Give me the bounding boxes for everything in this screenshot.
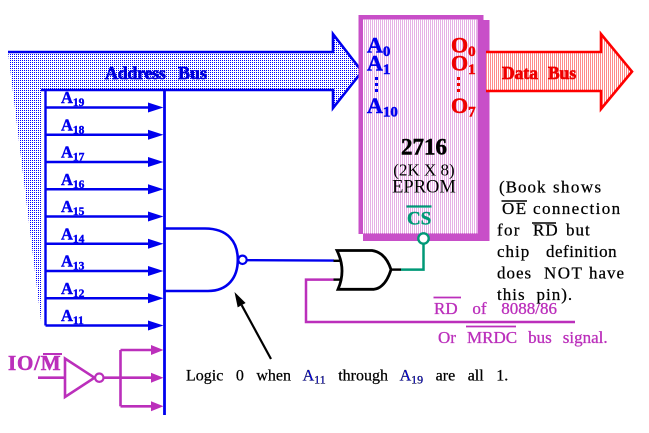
svg-text:Bus: Bus (548, 63, 576, 83)
svg-text:connection: connection (533, 199, 622, 218)
svg-text:Bus: Bus (178, 63, 207, 83)
svg-text:Or MRDC bus signal.: Or MRDC bus signal. (438, 328, 608, 347)
svg-text:A13: A13 (61, 252, 85, 273)
svg-text:A14: A14 (61, 224, 85, 245)
svg-text:but: but (566, 221, 591, 240)
svg-text:EPROM: EPROM (392, 178, 456, 198)
svg-text:have: have (589, 264, 625, 283)
svg-text:A17: A17 (61, 143, 85, 164)
svg-text:CS: CS (407, 209, 431, 230)
svg-text:NOT: NOT (544, 264, 583, 283)
svg-text:this: this (497, 285, 526, 304)
svg-text:for: for (497, 221, 521, 240)
svg-text:chip: chip (497, 242, 530, 261)
svg-text:A11: A11 (61, 306, 84, 327)
svg-text:pin).: pin). (537, 285, 574, 304)
svg-text:OE: OE (502, 199, 528, 218)
svg-text:(Book: (Book (499, 178, 547, 197)
svg-text:A18: A18 (61, 115, 85, 136)
svg-text:Data: Data (502, 63, 538, 83)
svg-text:A15: A15 (61, 197, 85, 218)
svg-text:shows: shows (553, 178, 603, 197)
svg-text:Address: Address (105, 63, 166, 83)
svg-text:does: does (497, 264, 532, 283)
svg-text:A16: A16 (61, 170, 85, 191)
svg-text:definition: definition (546, 242, 617, 261)
svg-text:2716: 2716 (401, 135, 447, 160)
svg-text:A12: A12 (61, 279, 85, 300)
svg-text:Logic 0 when A11 through A19 a: Logic 0 when A11 through A19 are all 1. (186, 368, 508, 387)
